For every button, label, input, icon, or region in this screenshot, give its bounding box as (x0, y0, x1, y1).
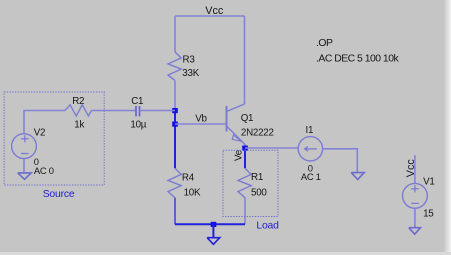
resistor R4 (168, 168, 181, 197)
svg-text:R4: R4 (182, 172, 195, 183)
svg-text:Load: Load (256, 221, 279, 232)
svg-text:I1: I1 (306, 125, 314, 136)
svg-text:AC 0: AC 0 (34, 165, 54, 176)
source box (4, 92, 104, 185)
svg-text:500: 500 (251, 187, 267, 198)
wire V2 top to R2 (24, 111, 65, 134)
wire R4 bottom (174, 198, 176, 225)
transistor Q1 collector wire (244, 16, 246, 104)
wire ground stub (212, 224, 214, 237)
wire vertical through junctions down to R4 (174, 108, 176, 168)
capacitor C1 (136, 106, 140, 116)
svg-text:Vb: Vb (195, 113, 207, 124)
wire rail down to R3 (174, 16, 176, 52)
svg-text:.OP: .OP (316, 38, 333, 49)
wire base (175, 123, 227, 125)
svg-text:Source: Source (43, 189, 75, 200)
svg-text:Vcc: Vcc (205, 5, 224, 17)
wire emitter junction to I1 (245, 147, 298, 149)
svg-text:R1: R1 (251, 172, 263, 183)
load box (223, 150, 278, 216)
wire C1 to junction (140, 110, 176, 112)
wire V2 bottom stub (23, 159, 25, 173)
svg-text:Vcc: Vcc (405, 159, 417, 178)
resistor R2 (65, 105, 91, 116)
transistor Q1 (227, 104, 246, 148)
svg-text:V1: V1 (423, 176, 434, 187)
svg-text:10µ: 10µ (130, 119, 146, 130)
node junction base (172, 122, 178, 127)
ground center (207, 238, 220, 245)
svg-text:Ve: Ve (233, 149, 244, 161)
node bottom junction (211, 222, 217, 227)
svg-text:R3: R3 (183, 55, 196, 66)
wire R2 to C1 (91, 110, 136, 112)
node junction C1 (172, 108, 178, 113)
wire R3 bottom to junction (174, 80, 176, 108)
svg-text:15: 15 (423, 209, 434, 220)
wire bottom rail (175, 223, 245, 225)
current source I1 (298, 137, 322, 161)
svg-text:10K: 10K (184, 188, 201, 199)
ground V1 (409, 228, 421, 235)
svg-text:.AC DEC 5 100 10k: .AC DEC 5 100 10k (316, 54, 399, 65)
wire emitter junction to R1 (244, 148, 246, 168)
svg-text:AC 1: AC 1 (301, 171, 321, 182)
svg-text:2N2222: 2N2222 (241, 127, 274, 138)
svg-text:Q1: Q1 (241, 113, 254, 124)
wire R1 bottom (244, 198, 246, 225)
node Ve junction (242, 146, 248, 151)
voltage source V1 (403, 183, 428, 208)
resistor R3 (168, 52, 181, 80)
ground V2 (18, 173, 32, 179)
resistor R1 (238, 168, 251, 197)
svg-text:V2: V2 (34, 127, 45, 138)
wire I1 to ground (322, 149, 357, 173)
svg-text:R2: R2 (72, 96, 84, 107)
wire V1 bottom stub (414, 208, 416, 228)
ground I1 (351, 173, 364, 180)
svg-text:33K: 33K (182, 68, 199, 79)
wire V1 top Vcc stub (414, 155, 416, 183)
voltage source V2 (12, 134, 37, 159)
wire Vcc top rail (175, 15, 245, 17)
svg-text:1k: 1k (74, 119, 84, 130)
svg-text:C1: C1 (131, 96, 143, 107)
